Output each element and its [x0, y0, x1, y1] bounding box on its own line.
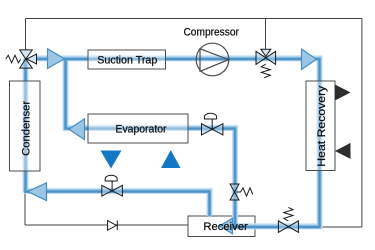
svg-text:Suction Trap: Suction Trap [97, 55, 157, 67]
valve V2 (three-way valve with spring, right of compressor) [256, 49, 276, 78]
valve V6 (valve with spring, bottom right of receiver) [278, 207, 298, 232]
compressor circle [196, 43, 229, 76]
vessel Heat Recovery box [306, 81, 335, 171]
svg-text:Heat Recovery: Heat Recovery [316, 85, 328, 167]
wire stem to valve V2 [265, 19, 267, 49]
valve V3 (globe valve with dome actuator, right of evaporator) [202, 113, 223, 135]
black triangle T3 (right arrow at heat recovery) [335, 85, 351, 101]
compressor triangle [200, 49, 229, 72]
wire right rail [361, 19, 363, 228]
valve V1 (top-left expansion valve with spring) [6, 50, 37, 68]
wire top-left stem (valve V1 to top rail) [25, 19, 27, 51]
wire top rail [26, 18, 362, 20]
wire bottom-right segment [320, 226, 362, 228]
check valve V7 (on bottom-left line) [108, 221, 118, 231]
svg-text:Compressor: Compressor [183, 27, 239, 39]
pipe network (light blue piping, 3-layer) [24, 58, 319, 227]
svg-text:Evaporator: Evaporator [116, 123, 167, 135]
wire bottom-left line to receiver [25, 224, 188, 226]
solid blue triangle T1 (down arrow below evaporator) [101, 151, 122, 169]
vessel Suction Trap box [88, 50, 166, 69]
valve V4 (vertical valve with spring, above receiver) [230, 184, 253, 200]
flow arrow A3 (left, at evaporator outlet) [69, 119, 85, 140]
flow arrow A4 (left, on liquid line to condenser) [28, 183, 47, 201]
vessel Receiver box [188, 216, 255, 237]
vessel Evaporator box [88, 114, 188, 143]
flow arrow A1 (right, before suction trap) [48, 49, 65, 69]
flow arrow A2 (right, before heat recovery elbow) [302, 49, 317, 70]
black triangle T4 (left arrow at heat recovery) [335, 143, 351, 159]
solid blue triangle T2 (up arrow below evaporator) [161, 150, 181, 168]
wire left drop from liquid line [24, 193, 26, 225]
valve V5 (globe valve with dome actuator, on liquid line) [102, 175, 123, 196]
svg-text:Condenser: Condenser [21, 101, 33, 156]
vessel Condenser box [10, 81, 41, 171]
flow arrow A5 (left, inside receiver) [220, 218, 233, 234]
svg-text:Receiver: Receiver [203, 221, 248, 233]
